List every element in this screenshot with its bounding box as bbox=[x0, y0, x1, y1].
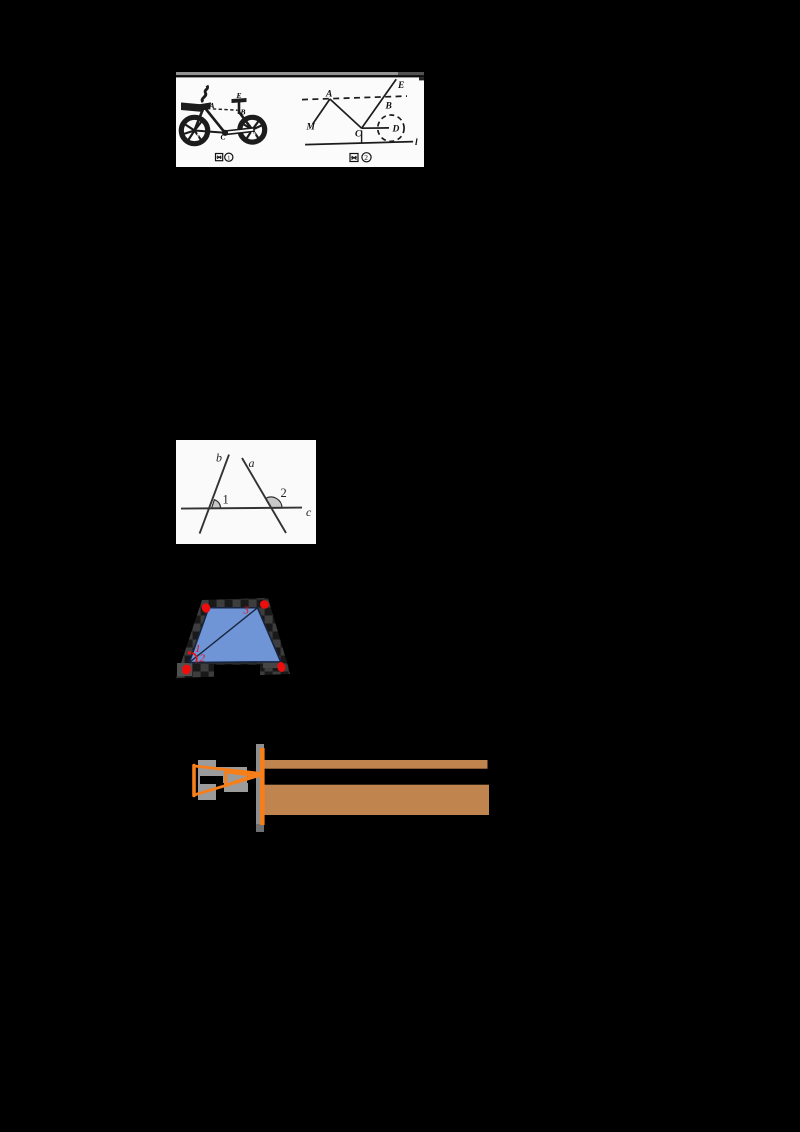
svg-text:A: A bbox=[209, 101, 215, 110]
svg-text:M: M bbox=[306, 123, 316, 133]
svg-text:B: B bbox=[240, 108, 246, 117]
svg-text:M: M bbox=[192, 133, 200, 141]
svg-text:3: 3 bbox=[243, 605, 250, 617]
svg-text:1: 1 bbox=[223, 493, 229, 507]
svg-text:B: B bbox=[385, 102, 392, 112]
svg-text:E: E bbox=[397, 81, 404, 91]
svg-text:2: 2 bbox=[281, 486, 287, 500]
svg-text:D: D bbox=[250, 131, 256, 139]
svg-text:a: a bbox=[249, 456, 255, 470]
svg-text:E: E bbox=[236, 91, 242, 100]
svg-text:1: 1 bbox=[227, 154, 230, 161]
svg-text:b: b bbox=[216, 451, 222, 465]
svg-text:C: C bbox=[355, 130, 362, 140]
svg-text:2: 2 bbox=[200, 653, 206, 665]
svg-text:c: c bbox=[306, 505, 312, 519]
svg-text:2: 2 bbox=[364, 153, 368, 162]
svg-text:A: A bbox=[325, 90, 332, 100]
svg-text:D: D bbox=[392, 125, 400, 135]
svg-text:l: l bbox=[415, 138, 418, 148]
